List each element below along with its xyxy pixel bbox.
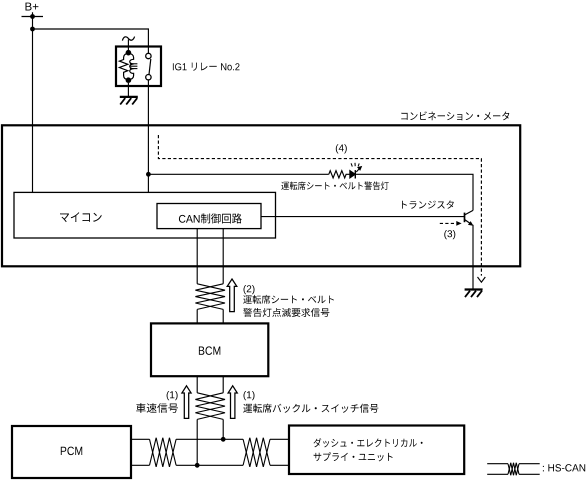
relay switch contact top [146,53,151,58]
ground chassis below relay [120,97,138,105]
label BCM [199,346,220,355]
relay switch contact bottom [146,75,151,80]
label seat belt warning lamp [281,182,388,191]
dash electrical supply unit box [289,426,464,475]
LED rays [351,163,359,167]
wire bus lower middle segment [176,464,243,466]
label dash unit line1 [314,438,423,447]
relay switch blade [149,59,151,75]
wire coil feed [127,40,129,52]
wire bus lower right segment [270,464,289,466]
wire relay switch output [147,80,149,193]
dashed arrow (3) head [457,222,461,226]
block arrow (2) request signal [227,279,237,312]
relay coil core lines [130,64,138,69]
label (1) left [167,391,178,400]
net label B+ [26,3,39,11]
wire BCM to braid H [196,376,198,393]
BCM box [151,323,268,376]
label microcomputer [60,212,102,222]
dashed path arrowhead down [478,277,486,282]
wire bus lower PCM segment [131,464,150,466]
wire braid to BCM L [222,309,224,323]
legend twisted pair braid [508,463,519,476]
microcomputer box [14,192,276,238]
junction dot CAN L bus [195,463,200,468]
relay coil resistor branch [119,53,128,80]
block arrow (1) vehicle speed [182,386,191,419]
relay IG1 No.2 box [116,47,161,87]
label dash unit line2 [314,452,393,461]
LED light emission arrow [356,167,361,172]
wire bus upper PCM segment [131,438,150,440]
wire bus upper right segment [270,438,289,440]
wire B+ branch to relay switch [33,29,149,53]
junction dot B+ node [30,14,35,19]
wire emitter to ground [472,225,474,290]
label (4) [336,144,347,153]
twisted pair braid PCM side [150,438,177,467]
resistor in series with lamp [329,171,350,178]
junction dot lamp branch [146,172,151,177]
label buckle switch signal [243,404,378,413]
wire lamp feed [148,173,328,175]
wire braid to bus lower [196,419,198,465]
wire lamp to transistor collector [355,174,473,210]
legend twisted pair upper left [487,463,508,465]
label IG1 relay No.2 [173,63,240,71]
dashed arrow (3) dashes [440,222,457,224]
relay coil inductor branch [128,53,133,80]
LED cathode bar [354,170,356,178]
junction dot B+ branch [30,27,35,32]
label PCM [61,447,82,456]
legend twisted pair upper right [519,463,540,465]
combination meter box [2,125,520,266]
dashed IG supply path [158,135,481,276]
PCM box [12,426,131,478]
label combination meter [401,111,509,120]
relay coil terminal top [126,50,132,56]
label HS-CAN [543,464,585,471]
label (1) right [244,391,255,400]
wire BCM to braid L [222,376,224,393]
junction dot CAN H bus [221,437,226,442]
wire braid to bus upper [222,419,224,439]
wire CAN L from control circuit [222,229,224,284]
label (3) [444,230,455,239]
wire CAN H from control circuit [196,229,198,284]
wire bus upper middle segment [176,438,243,440]
relay coil terminal bottom [126,77,132,83]
twisted pair braid BCM-bus [195,393,225,420]
LED warning lamp triangle [350,171,356,179]
CAN control circuit box [157,204,261,229]
transistor Q1 [465,210,474,225]
legend twisted pair lower left [487,473,508,475]
wire B+ terminal tick [22,16,44,18]
label transistor [402,200,454,208]
wire relay coil to ground [127,83,129,97]
wire B+ vertical feed to microcomputer [32,12,34,192]
label CAN control circuit [179,213,242,223]
label blink request line1 [243,295,334,304]
block arrow (1) buckle switch [228,386,237,419]
twisted pair braid meter-BCM [195,284,225,310]
wire braid to BCM H [196,309,198,323]
ground chassis below meter [465,290,483,298]
legend twisted pair lower right [519,473,540,475]
label blink request line2 [243,308,329,317]
break squiggle wire continuation [122,37,134,41]
label (2) [244,285,255,294]
wire base from CAN circuit [261,216,465,218]
label vehicle speed signal [136,403,178,413]
twisted pair braid dash unit side [243,438,270,467]
